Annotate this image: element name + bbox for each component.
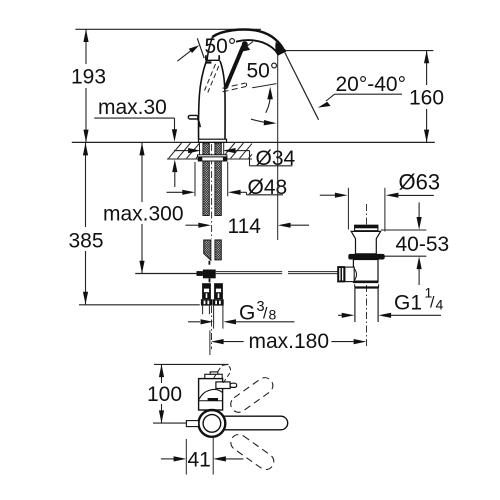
svg-text:20°-40°: 20°-40° bbox=[336, 73, 407, 96]
rotation arc up arrow bbox=[266, 92, 271, 113]
svg-text:max.30: max.30 bbox=[98, 96, 167, 119]
dimension 160 bbox=[426, 51, 428, 143]
lever side view bbox=[216, 382, 230, 389]
cartridge detail under cap bbox=[206, 61, 211, 63]
spout bbox=[213, 30, 284, 50]
svg-text:40-53: 40-53 bbox=[396, 233, 450, 256]
dimension O34 bbox=[174, 150, 188, 152]
dashed lever open position bbox=[223, 83, 247, 92]
dimension 114 bbox=[186, 224, 199, 226]
svg-text:160: 160 bbox=[409, 87, 444, 110]
top reference line bbox=[75, 28, 261, 30]
mounting washer and nut bbox=[198, 155, 227, 157]
svg-text:385: 385 bbox=[69, 230, 104, 253]
rod connector bbox=[345, 267, 354, 282]
svg-text:4: 4 bbox=[436, 297, 444, 313]
pivot circle bbox=[199, 410, 226, 437]
label G3/8 bbox=[188, 321, 200, 323]
top line bbox=[154, 363, 229, 365]
extension line at spout outlet bbox=[277, 55, 279, 241]
arc arrow to tick bbox=[177, 50, 192, 61]
bottom reference line bbox=[79, 304, 200, 306]
svg-text:114: 114 bbox=[228, 215, 262, 238]
faucet centerline upper bbox=[211, 144, 213, 239]
label G1 1/4 bbox=[338, 314, 342, 316]
threaded shank bbox=[203, 143, 209, 216]
arrow at lever tip bbox=[244, 42, 253, 49]
tab bbox=[186, 421, 198, 427]
hose connectors G3/8 bbox=[201, 283, 224, 305]
svg-text:G1: G1 bbox=[394, 292, 422, 315]
rod coupling bbox=[203, 270, 216, 279]
dimension max.300 bbox=[141, 143, 143, 273]
pop-up pull knob bbox=[188, 115, 198, 119]
drain tailpipe bbox=[354, 288, 356, 322]
svg-text:Ø63: Ø63 bbox=[399, 169, 441, 194]
locknut bbox=[355, 286, 379, 288]
svg-text:G: G bbox=[239, 302, 255, 325]
svg-text:8: 8 bbox=[269, 307, 277, 323]
hose tails bbox=[203, 306, 223, 329]
svg-text:/: / bbox=[263, 306, 268, 323]
waste flange (black) bbox=[348, 254, 384, 260]
drain centerline bbox=[366, 204, 368, 348]
dimension 385 bbox=[85, 143, 87, 304]
spout arm solid bbox=[212, 416, 288, 430]
dimension 41 bbox=[185, 439, 187, 475]
tick mark 50deg bbox=[197, 38, 204, 58]
spout swivel dashed arms bbox=[228, 374, 277, 472]
dashed lever raised bbox=[214, 365, 231, 384]
countertop deck line bbox=[72, 141, 435, 143]
pop-up waste plug bbox=[355, 225, 378, 231]
bottom line bbox=[153, 422, 186, 424]
dimension max.180 bbox=[209, 330, 211, 355]
svg-text:50°: 50° bbox=[247, 59, 279, 82]
cartridge dome bbox=[199, 390, 222, 400]
rotation arc right arrow bbox=[251, 119, 266, 122]
waste body bbox=[353, 260, 378, 282]
rod knob bbox=[337, 266, 345, 282]
flexible hoses upper bbox=[204, 240, 211, 260]
svg-text:50°: 50° bbox=[205, 35, 237, 58]
deck hatching bbox=[167, 142, 252, 159]
spray angle diagonal bbox=[285, 53, 319, 120]
pop-up rod bbox=[135, 273, 203, 275]
waste funnel bbox=[351, 231, 380, 254]
body top view bbox=[210, 372, 218, 375]
svg-text:Ø34: Ø34 bbox=[256, 147, 296, 170]
spout height line bbox=[285, 50, 433, 52]
svg-text:/: / bbox=[430, 295, 435, 312]
rod stub bbox=[209, 261, 211, 265]
svg-text:100: 100 bbox=[147, 383, 182, 406]
svg-text:max.300: max.300 bbox=[103, 202, 184, 225]
dimension 193 bbox=[85, 29, 87, 142]
svg-text:Ø48: Ø48 bbox=[248, 176, 288, 199]
dimension O63 bbox=[347, 188, 349, 230]
faucet body front view bbox=[198, 55, 226, 142]
dimension 100 bbox=[161, 364, 163, 423]
deck thickness up arrow bbox=[172, 159, 177, 172]
lever handle (solid, raised) bbox=[226, 47, 243, 87]
svg-text:41: 41 bbox=[188, 449, 211, 472]
svg-text:max.180: max.180 bbox=[249, 330, 330, 353]
dashed lever inside body bbox=[205, 64, 219, 93]
svg-text:193: 193 bbox=[71, 66, 106, 89]
dimension O48 bbox=[194, 162, 196, 196]
dimension 40-53 bbox=[418, 202, 420, 217]
